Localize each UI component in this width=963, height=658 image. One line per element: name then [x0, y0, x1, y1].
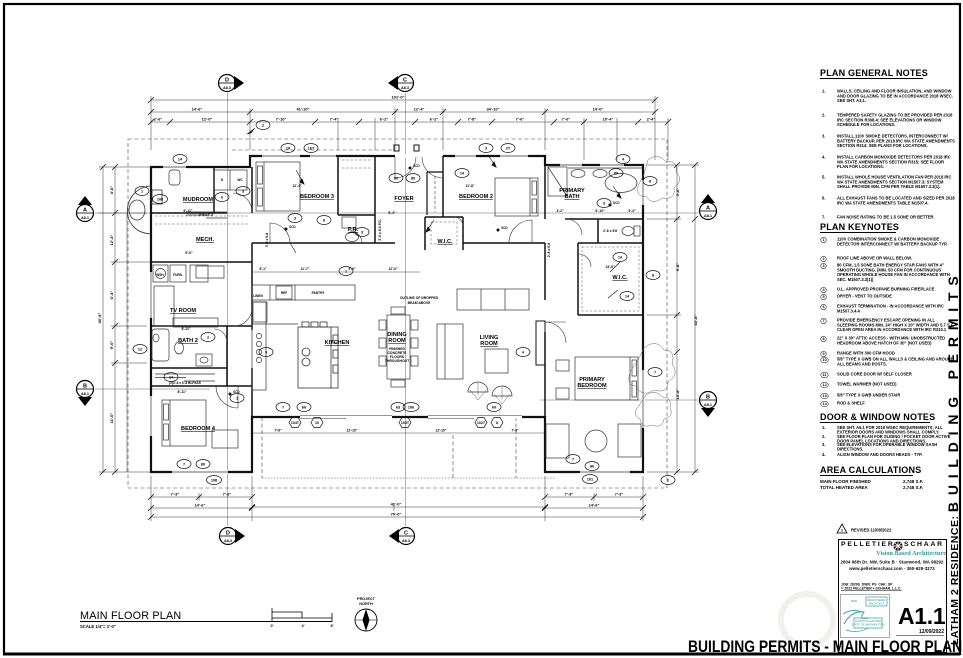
svg-text:80: 80	[411, 177, 415, 181]
svg-text:WC: WC	[237, 178, 243, 182]
svg-text:D: D	[225, 78, 229, 84]
svg-text:D: D	[221, 178, 224, 182]
section marker B right	[700, 392, 717, 418]
svg-text:14: 14	[625, 295, 630, 299]
svg-text:4': 4'	[301, 624, 304, 628]
svg-text:10: 10	[315, 421, 319, 425]
svg-text:7'-3": 7'-3"	[615, 492, 624, 497]
svg-text:4: 4	[622, 158, 625, 162]
svg-text:SCD: SCD	[501, 226, 508, 230]
sheet number A1.1	[898, 603, 948, 630]
title block box	[838, 539, 947, 653]
dining table with chairs	[379, 307, 418, 387]
svg-text:BEDROOM: BEDROOM	[577, 383, 607, 389]
svg-text:A8.1: A8.1	[704, 403, 712, 407]
bi-pass closet doors mudroom	[155, 212, 227, 381]
bottom dimension texts	[171, 492, 624, 517]
svg-text:12'-4": 12'-4"	[414, 107, 425, 112]
job info lines	[841, 583, 941, 591]
smoke detectors	[229, 164, 621, 396]
svg-text:41'-0": 41'-0"	[391, 502, 402, 507]
svg-text:7'-3": 7'-3"	[223, 492, 232, 497]
svg-text:SCD: SCD	[613, 201, 620, 205]
svg-text:B: B	[83, 384, 87, 390]
graphic scale bar	[272, 608, 332, 622]
svg-text:OUTLINE OF DROPPED: OUTLINE OF DROPPED	[400, 296, 439, 300]
bath 2 fixtures	[152, 329, 212, 366]
svg-text:2'-6 x 6'-8: 2'-6 x 6'-8	[199, 213, 214, 217]
svg-text:16T: 16T	[308, 147, 315, 151]
svg-text:BEDROOM 3: BEDROOM 3	[300, 194, 334, 200]
interior walls	[151, 156, 643, 417]
exterior walls	[151, 156, 643, 472]
svg-text:A: A	[83, 208, 87, 214]
right dimension ticks	[674, 162, 698, 475]
bottom dimension ticks	[148, 494, 646, 520]
section centerline D vertical	[227, 93, 229, 526]
vision based architecture tagline	[840, 550, 946, 557]
area calculations rows	[820, 479, 920, 484]
svg-text:6'-10": 6'-10"	[595, 209, 605, 213]
svg-text:PANTRY: PANTRY	[312, 291, 326, 295]
project north arrow	[355, 597, 377, 631]
mudroom bench and cubbies	[169, 170, 247, 190]
svg-text:1: 1	[345, 270, 347, 274]
top dimension texts	[154, 95, 656, 122]
room labels	[170, 194, 628, 432]
kitchen counter and pantry band	[252, 285, 355, 390]
svg-text:1: 1	[236, 397, 238, 401]
svg-text:8'-4": 8'-4"	[388, 211, 396, 215]
section marker B left	[77, 381, 94, 407]
patio dashed outline	[262, 417, 556, 478]
plan general notes items	[837, 89, 955, 104]
svg-text:63: 63	[396, 406, 400, 410]
svg-text:C: C	[403, 78, 407, 84]
svg-text:1: 1	[841, 528, 844, 533]
svg-text:8': 8'	[330, 624, 333, 628]
svg-text:P.R.: P.R.	[348, 227, 359, 233]
svg-text:9'-0": 9'-0"	[185, 251, 193, 255]
svg-text:7: 7	[183, 463, 185, 467]
svg-text:THROUGHOUT: THROUGHOUT	[385, 359, 410, 363]
svg-text:4: 4	[522, 351, 525, 355]
bedroom2 closet strip	[427, 172, 443, 215]
shrub blob right upper	[638, 156, 680, 201]
section marker D top	[219, 75, 245, 92]
svg-text:14: 14	[178, 158, 183, 162]
svg-text:BATH: BATH	[564, 194, 579, 200]
small fixture labels	[156, 178, 325, 385]
svg-text:6'-2": 6'-2"	[430, 117, 439, 122]
vertical sheet title	[945, 270, 963, 646]
svg-text:11'-0": 11'-0"	[109, 413, 114, 424]
svg-text:3: 3	[294, 217, 296, 221]
toilet room fixture	[622, 226, 640, 236]
svg-text:108: 108	[211, 479, 217, 483]
foyer porch posts	[394, 145, 419, 151]
svg-text:80: 80	[394, 177, 398, 181]
svg-text:SCD: SCD	[413, 164, 420, 168]
svg-text:MUDROOM: MUDROOM	[183, 197, 213, 203]
svg-text:8'-11": 8'-11"	[181, 327, 190, 331]
svg-text:W.I.C.: W.I.C.	[612, 275, 628, 281]
bottom dimension lines	[151, 476, 643, 521]
svg-text:MECH.: MECH.	[196, 237, 214, 243]
svg-text:7'-8": 7'-8"	[511, 429, 519, 433]
svg-text:8: 8	[496, 421, 498, 425]
svg-text:NORTH: NORTH	[359, 602, 373, 606]
primary bath fixtures	[548, 167, 643, 196]
svg-text:103T: 103T	[401, 421, 410, 425]
top dimension lines	[151, 96, 668, 160]
mech room washer and furnace	[153, 265, 208, 282]
svg-text:7'-8": 7'-8"	[468, 117, 477, 122]
svg-text:80: 80	[614, 172, 618, 176]
svg-text:STATE OF WASHINGTON: STATE OF WASHINGTON	[851, 623, 884, 627]
address lines	[838, 559, 946, 572]
bed bedroom 3	[256, 162, 300, 211]
svg-text:7'-6": 7'-6"	[562, 117, 571, 122]
interior dimension texts	[177, 184, 636, 433]
svg-text:104T: 104T	[291, 421, 300, 425]
svg-text:2'-6 x 6'8: 2'-6 x 6'8	[603, 229, 617, 233]
plan keynotes title	[820, 222, 896, 233]
svg-text:14'-6": 14'-6"	[192, 107, 203, 112]
svg-text:15'-8": 15'-8"	[675, 388, 680, 399]
svg-text:7: 7	[572, 458, 574, 462]
section line A-A horizontal	[95, 212, 698, 214]
section marker C bottom	[389, 528, 415, 545]
svg-text:LINEN: LINEN	[253, 294, 263, 298]
svg-text:9846: 9846	[851, 599, 858, 603]
sheet date	[896, 629, 944, 636]
pelletier schaar logo text	[841, 541, 895, 548]
svg-text:A8.1: A8.1	[81, 216, 89, 220]
svg-text:ARCHITECT: ARCHITECT	[868, 602, 884, 606]
svg-text:66: 66	[302, 406, 306, 410]
finished concrete note	[385, 347, 410, 363]
door and window notes items	[837, 426, 955, 435]
svg-text:A8.3: A8.3	[223, 86, 231, 90]
svg-text:BEDROOM 2: BEDROOM 2	[459, 194, 493, 200]
svg-text:3'-6 x 6-8: 3'-6 x 6-8	[265, 233, 269, 247]
svg-text:5'-6": 5'-6"	[675, 188, 680, 197]
svg-text:2T: 2T	[506, 147, 511, 151]
two-line room labels	[387, 188, 607, 389]
svg-text:60: 60	[492, 406, 496, 410]
svg-text:12'-4": 12'-4"	[292, 184, 302, 188]
svg-text:11'-8": 11'-8"	[465, 184, 474, 188]
interior dim row line kitchen	[252, 272, 545, 433]
svg-text:14'-6": 14'-6"	[589, 503, 600, 508]
svg-text:7'-3": 7'-3"	[565, 492, 574, 497]
tv room furniture	[154, 266, 224, 327]
svg-text:FOYER: FOYER	[394, 196, 413, 202]
svg-text:12'-0": 12'-0"	[202, 117, 213, 122]
svg-text:80: 80	[201, 463, 205, 467]
svg-text:43'-8": 43'-8"	[693, 314, 698, 325]
svg-text:KITCHEN: KITCHEN	[325, 340, 350, 346]
svg-text:12: 12	[138, 348, 142, 352]
svg-text:11'-7": 11'-7"	[300, 267, 309, 271]
door and window notes title	[820, 412, 930, 423]
svg-text:2: 2	[262, 124, 264, 128]
svg-text:14: 14	[460, 172, 465, 176]
svg-text:A8.1: A8.1	[81, 392, 89, 396]
svg-text:PROJECT: PROJECT	[357, 597, 376, 601]
window openings (white gaps with thin sill lines)	[151, 156, 643, 472]
svg-text:14: 14	[618, 256, 623, 260]
svg-text:70'-0": 70'-0"	[391, 512, 402, 517]
plan keynotes items	[837, 237, 955, 247]
svg-text:108: 108	[157, 198, 163, 202]
svg-text:2: 2	[207, 336, 209, 340]
bed bedroom 4	[162, 400, 238, 448]
svg-text:6'-4": 6'-4"	[109, 291, 114, 300]
kitchen island	[298, 322, 338, 388]
section line B-B horizontal left	[95, 388, 210, 390]
top dimension ticks	[148, 97, 671, 125]
svg-text:MAIN FLOOR PLAN: MAIN FLOOR PLAN	[80, 610, 181, 622]
left dimension texts (rotated)	[97, 186, 114, 424]
svg-text:8: 8	[649, 180, 651, 184]
svg-text:106: 106	[408, 406, 414, 410]
svg-text:9'-8": 9'-8"	[675, 263, 680, 272]
svg-text:101: 101	[587, 478, 593, 482]
svg-text:REF: REF	[281, 291, 287, 295]
svg-text:6'-11": 6'-11"	[183, 209, 192, 213]
svg-text:0': 0'	[270, 624, 273, 628]
svg-text:3: 3	[603, 202, 605, 206]
svg-text:SCD: SCD	[289, 225, 296, 229]
left dimension ticks	[100, 164, 118, 475]
svg-text:7: 7	[282, 406, 284, 410]
dashed roof outline	[128, 139, 667, 488]
svg-text:12'-10": 12'-10"	[435, 429, 446, 433]
faint watermark circle	[781, 594, 833, 646]
svg-text:7'-3": 7'-3"	[171, 492, 180, 497]
svg-text:3'-2": 3'-2"	[556, 209, 564, 213]
svg-text:12'-4": 12'-4"	[109, 234, 114, 245]
primary bedroom sitting furniture	[546, 424, 641, 458]
svg-text:2'-4": 2'-4"	[647, 117, 656, 122]
svg-text:14'-6": 14'-6"	[195, 503, 206, 508]
area calculations title	[820, 465, 913, 476]
svg-text:4'-6": 4'-6"	[109, 186, 114, 195]
fireplace	[536, 321, 545, 365]
svg-text:BEDROOM 4: BEDROOM 4	[181, 426, 216, 432]
svg-text:41'-10": 41'-10"	[296, 107, 309, 112]
svg-text:A8.1: A8.1	[704, 214, 712, 218]
svg-text:BATH 2: BATH 2	[178, 338, 198, 344]
svg-text:12'-0": 12'-0"	[388, 267, 398, 271]
plan general notes title	[820, 68, 923, 79]
section centerline C vertical	[405, 93, 407, 526]
svg-text:10'-4": 10'-4"	[603, 117, 614, 122]
svg-text:102T: 102T	[477, 421, 486, 425]
right dimension texts (rotated)	[675, 188, 698, 400]
architect stamp box	[840, 594, 890, 638]
svg-text:A8.3: A8.3	[401, 86, 409, 90]
keynote leader arrows	[247, 128, 621, 298]
bed primary bedroom	[556, 357, 638, 400]
svg-text:A: A	[706, 206, 710, 212]
svg-text:WSH: WSH	[156, 273, 164, 277]
left dimension lines	[99, 167, 151, 472]
svg-text:3'-0 x 8-0 P.D.: 3'-0 x 8-0 P.D.	[378, 219, 382, 241]
svg-text:40'-8": 40'-8"	[97, 312, 102, 323]
logo circle mark	[892, 540, 904, 552]
svg-text:3: 3	[242, 190, 244, 194]
shrub blob right lower	[629, 343, 675, 426]
svg-text:C: C	[404, 531, 408, 537]
svg-text:7'-10": 7'-10"	[276, 117, 287, 122]
revision triangle and note	[836, 522, 956, 536]
svg-text:7: 7	[654, 371, 656, 375]
svg-text:A8.3: A8.3	[224, 539, 232, 543]
svg-text:6: 6	[221, 196, 223, 200]
svg-text:8'-11": 8'-11"	[177, 390, 186, 394]
svg-text:13'-6": 13'-6"	[605, 265, 615, 269]
window tag hexagons bottom wall	[289, 418, 503, 428]
svg-text:3: 3	[361, 231, 363, 235]
svg-text:8: 8	[652, 274, 654, 278]
svg-text:REVISED 11/08/2022: REVISED 11/08/2022	[851, 528, 892, 533]
svg-text:D: D	[226, 531, 230, 537]
section marker C top	[388, 75, 414, 92]
bed bedroom 2	[495, 178, 538, 216]
svg-text:12'-10": 12'-10"	[346, 429, 357, 433]
section marker A left	[77, 196, 94, 222]
section line B-B horizontal right	[540, 399, 698, 401]
keynote ovals	[133, 121, 675, 485]
svg-text:A8.3: A8.3	[402, 539, 410, 543]
door arcs	[214, 157, 591, 408]
svg-text:14'-0": 14'-0"	[593, 107, 604, 112]
svg-text:9: 9	[265, 351, 267, 355]
section marker A right	[700, 194, 717, 220]
svg-text:1: 1	[141, 190, 143, 194]
svg-text:8: 8	[323, 219, 325, 223]
mudroom bath bump-out and fixtures	[127, 186, 162, 234]
svg-text:7'-4": 7'-4"	[330, 117, 339, 122]
svg-text:101'-0": 101'-0"	[391, 95, 404, 100]
svg-text:(2)2'-6 x 6'-8 BI-PASS: (2)2'-6 x 6'-8 BI-PASS	[169, 381, 201, 385]
section marker D bottom	[220, 528, 246, 545]
living room rug and sofa	[437, 289, 529, 404]
svg-text:7'-6": 7'-6"	[516, 117, 525, 122]
svg-text:34'-10": 34'-10"	[486, 107, 499, 112]
svg-text:9'-0": 9'-0"	[109, 341, 114, 350]
svg-text:80: 80	[590, 465, 594, 469]
svg-text:ROOM: ROOM	[388, 338, 406, 344]
outline of dropped beam note	[400, 296, 439, 305]
svg-text:B: B	[706, 395, 710, 401]
svg-text:2'-8 x 6-8: 2'-8 x 6-8	[547, 243, 551, 257]
powder room fixtures	[342, 217, 359, 242]
svg-text:18: 18	[286, 147, 290, 151]
svg-text:2'-6": 2'-6"	[154, 117, 163, 122]
svg-text:3: 3	[485, 147, 487, 151]
closet rod and shelf dashed lines	[155, 160, 639, 311]
bottom sheet title	[688, 638, 962, 657]
svg-text:TV ROOM: TV ROOM	[170, 308, 196, 314]
svg-text:FURN.: FURN.	[173, 273, 183, 277]
svg-text:3'-0": 3'-0"	[348, 267, 356, 271]
svg-text:2: 2	[667, 479, 669, 483]
svg-text:5'-1": 5'-1"	[259, 267, 267, 271]
right dimension lines	[647, 165, 699, 472]
svg-text:6'-2": 6'-2"	[380, 117, 389, 122]
svg-text:ROOM: ROOM	[480, 341, 498, 347]
svg-text:SCALE 1/4"= 1'-0": SCALE 1/4"= 1'-0"	[80, 624, 116, 629]
main floor plan title	[80, 610, 332, 629]
svg-text:7'-8": 7'-8"	[274, 429, 282, 433]
svg-text:BEAM ABOVE: BEAM ABOVE	[408, 301, 432, 305]
svg-text:5'-4": 5'-4"	[628, 209, 636, 213]
